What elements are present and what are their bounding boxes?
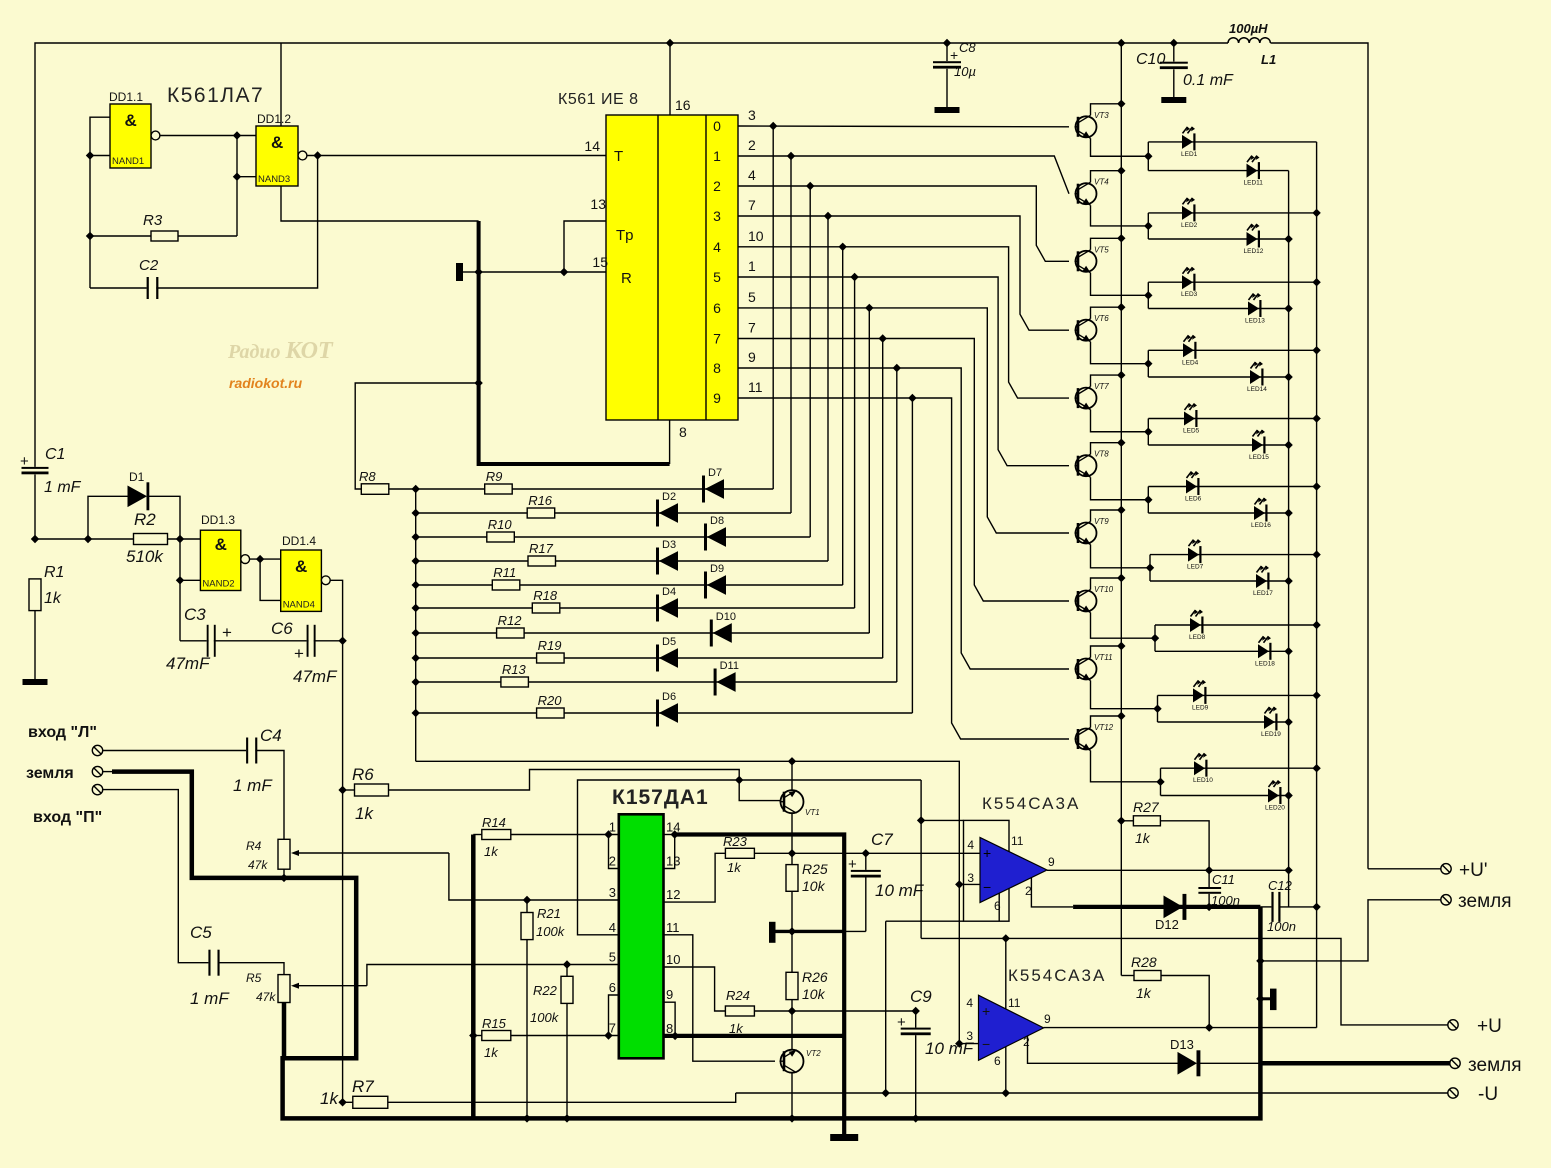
resistor R18 (532, 603, 560, 613)
terminal +U (1448, 1020, 1458, 1030)
wire LED pair stub 7 (1149, 555, 1151, 581)
wire VT10 collector to LED pair (1091, 613, 1156, 639)
svg-text:8: 8 (679, 424, 687, 440)
svg-text:земля: земля (26, 765, 74, 782)
wire LED19 row (1158, 721, 1289, 723)
thick stub bar to frame (776, 930, 845, 933)
svg-text:D7: D7 (708, 467, 722, 479)
terminal земля2 (1450, 1058, 1460, 1068)
svg-text:47mF: 47mF (293, 667, 338, 686)
svg-text:8: 8 (666, 1021, 673, 1036)
svg-text:1k: 1k (484, 1045, 499, 1060)
svg-text:3: 3 (966, 1029, 973, 1043)
junction VT2 emitter ground (788, 1114, 796, 1122)
op-amp U2 К554СА3А lower triangle (979, 995, 1044, 1060)
svg-text:D5: D5 (662, 636, 676, 648)
wire ladder row R12/D10 (416, 632, 870, 634)
svg-text:К554СА3А: К554СА3А (1008, 966, 1106, 985)
nand gate DD1.2 (256, 126, 298, 186)
wire DD1.4 output bus down (330, 580, 342, 1102)
diode D6 (656, 700, 659, 727)
diode D2 (656, 500, 659, 527)
svg-text:3: 3 (748, 107, 756, 123)
svg-text:+: + (982, 1003, 990, 1019)
junctions odd bus (1312, 209, 1320, 911)
junction R3 left (86, 232, 94, 240)
svg-text:D11: D11 (720, 660, 739, 672)
junction R8 row on thick bus (474, 379, 482, 387)
transistor VT5 (1076, 251, 1097, 272)
svg-text:2: 2 (609, 854, 616, 869)
wire D1 to node right (149, 496, 180, 641)
svg-text:1k: 1k (355, 804, 374, 823)
wire VT3 emitter to bus (1091, 104, 1122, 116)
svg-text:6: 6 (713, 300, 721, 316)
svg-text:L1: L1 (1261, 52, 1276, 67)
junction R21 top (523, 896, 531, 904)
svg-text:+: + (222, 623, 232, 642)
potentiometer R4 (278, 839, 290, 869)
svg-text:R22: R22 (533, 983, 558, 998)
junction collector LED stub (1144, 428, 1152, 436)
wire C1 to R2 node (35, 475, 134, 540)
wire C2 row (90, 156, 318, 289)
resistor R20 (537, 708, 565, 718)
svg-text:LED10: LED10 (1193, 777, 1213, 784)
svg-text:C11: C11 (1212, 872, 1235, 887)
junctions on ladder bus (412, 485, 420, 717)
svg-text:9: 9 (1048, 855, 1055, 869)
svg-text:−: − (982, 1036, 990, 1052)
svg-text:1 mF: 1 mF (233, 776, 273, 795)
wire LED10 row (1161, 767, 1317, 769)
thick wire pin14 row and right frame (675, 835, 845, 1135)
wire C7 node to comparator pin4 (866, 852, 980, 854)
counter outer pin numbers (748, 107, 764, 395)
transistor VT9 (1076, 523, 1097, 544)
wire C3 C6 row (180, 640, 343, 642)
svg-text:R1: R1 (44, 564, 64, 581)
wire ladder row R10/D8 (416, 536, 811, 538)
svg-text:C1: C1 (45, 446, 65, 463)
svg-text:R27: R27 (1133, 799, 1160, 815)
wire pin3 stub upper (959, 883, 980, 885)
main ground symbol (830, 1134, 858, 1141)
svg-text:VT4: VT4 (1094, 178, 1109, 187)
wire LED14 row (1148, 376, 1288, 378)
svg-text:1k: 1k (1135, 830, 1151, 846)
wire box bottom to -U drop (885, 921, 887, 1093)
stub bar2 (1260, 997, 1270, 1000)
wire LED pair stub 8 (1154, 625, 1156, 651)
junction pin7 (604, 1031, 612, 1039)
wire pin1-pin2 bracket (609, 835, 619, 869)
svg-text:9: 9 (748, 349, 756, 365)
pin 15 R wire (479, 271, 606, 273)
svg-text:10: 10 (748, 228, 764, 244)
junction Tp-R (560, 268, 568, 276)
svg-text:R21: R21 (537, 906, 561, 921)
thick ground path from земля input (103, 771, 113, 773)
wire pin6 lower riser (1005, 1047, 1007, 1093)
junction C2 to DD1.2 output (313, 151, 321, 159)
wire LED8 row (1155, 624, 1317, 626)
junction pin8 (671, 1032, 679, 1040)
junction VT11 emitter (1117, 642, 1125, 650)
wire pin3 stub lower (959, 1043, 978, 1045)
capacitor C1 (22, 467, 49, 469)
wire box bottom extension (886, 920, 964, 922)
svg-text:100n: 100n (1211, 893, 1240, 908)
wire C7 bottom (865, 878, 867, 932)
led LED2 (1182, 206, 1193, 220)
comparator box upper (964, 820, 1010, 921)
svg-text:1 mF: 1 mF (44, 479, 82, 496)
svg-text:земля: земля (1458, 891, 1512, 912)
junction DD1.1 input2 (86, 151, 94, 159)
output bubble DD1.1 (151, 131, 160, 140)
wire R24 to node (754, 1010, 915, 1012)
transistor VT6 (1076, 320, 1097, 341)
junction VT5 emitter (1117, 234, 1125, 242)
svg-text:8: 8 (713, 360, 721, 376)
svg-text:+: + (950, 47, 958, 63)
wire pin2 lower to D13 (1028, 1036, 1179, 1064)
svg-text:3: 3 (967, 871, 974, 885)
svg-text:10 mF: 10 mF (875, 881, 925, 900)
thick bus from DD1.2 to counter pin 8 (479, 221, 670, 464)
wire counter pin3 row to VT6 base (738, 216, 1069, 330)
resistor R2 (134, 534, 168, 545)
nand gate DD1.1 (110, 104, 151, 168)
svg-text:LED4: LED4 (1182, 359, 1199, 366)
svg-text:2: 2 (1023, 1035, 1030, 1049)
capacitor C10 wire stub (1173, 43, 1175, 62)
terminal вход Л (92, 745, 102, 755)
wire LED16 row (1148, 512, 1288, 514)
junction collector LED stub (1144, 222, 1152, 230)
junction DD1.3 input2 node (176, 576, 184, 584)
wire counter pin2 row to VT5 base (738, 186, 1069, 261)
wire ladder row R19/D5 (416, 657, 883, 659)
svg-text:вход "П": вход "П" (33, 809, 102, 826)
junctions on top rail (666, 39, 1178, 47)
svg-text:C6: C6 (271, 619, 293, 638)
led LED14 (1250, 370, 1261, 384)
wire ladder row R9/D7 (416, 488, 774, 490)
svg-text:R11: R11 (493, 565, 516, 580)
svg-text:DD1.1: DD1.1 (109, 90, 143, 104)
junction pin3 upper (955, 880, 963, 888)
diode D3 (656, 548, 659, 575)
junction DD1.3 out (256, 555, 264, 563)
wire R5 wiper (366, 985, 368, 987)
svg-text:LED12: LED12 (1244, 248, 1264, 255)
pin labels left (609, 820, 616, 1036)
svg-text:R9: R9 (486, 469, 503, 484)
wire R4 wiper (295, 852, 449, 854)
wire DD1.3 input2 stub (180, 579, 200, 581)
svg-text:VT1: VT1 (805, 808, 820, 817)
pin 13 Tp wire (564, 221, 606, 272)
wire LED7 row (1150, 554, 1317, 556)
svg-text:C4: C4 (260, 726, 282, 745)
svg-text:R8: R8 (359, 469, 376, 484)
wire R5 bottom thick (282, 1003, 287, 1059)
wire pin13-pin14 bracket (664, 835, 675, 869)
wire LED11 row (1148, 170, 1288, 172)
svg-text:0: 0 (713, 118, 721, 134)
junction DD1.2 input2 (233, 173, 241, 181)
led LED11 (1247, 164, 1258, 178)
wire ladder row R18/D4 (416, 607, 855, 609)
led LED8 (1190, 618, 1201, 632)
svg-text:1k: 1k (44, 590, 62, 607)
junction R6 left on DD1.4 bus (338, 786, 346, 794)
wire counter pin7 row to VT10 base (738, 339, 1069, 602)
wire C10 to ground (1173, 69, 1175, 97)
svg-text:1 mF: 1 mF (190, 989, 230, 1008)
resistor R28 with wires (1121, 975, 1134, 977)
capacitor C6 (307, 625, 309, 657)
junction R25-R26 on bar row (788, 927, 796, 935)
junction output R28 riser (1205, 1023, 1213, 1031)
junction VT4 emitter (1117, 167, 1125, 175)
wire R22 to ground bus (566, 1003, 568, 1118)
wire DD1.1 input 2 stub (90, 155, 110, 157)
svg-text:C3: C3 (184, 605, 206, 624)
junction R7 left on DD1.4 bus (338, 1098, 346, 1106)
wire -U row (736, 1092, 1448, 1094)
resistor R12 (497, 628, 524, 638)
led LED7 (1188, 548, 1199, 562)
svg-text:1: 1 (748, 258, 756, 274)
junction C9 top (912, 1007, 920, 1015)
junction pin14 (671, 830, 679, 838)
wire C4 to R4 (255, 751, 284, 840)
output bubble DD1.3 (241, 555, 250, 564)
svg-text:100k: 100k (536, 924, 566, 939)
svg-text:LED11: LED11 (1244, 180, 1264, 187)
svg-text:4: 4 (967, 838, 974, 852)
wire pin9-pin8 bracket (664, 1002, 676, 1036)
capacitor C7 (865, 853, 867, 870)
wire VT11 emitter to bus (1091, 646, 1122, 658)
wire LED pair stub 5 (1147, 419, 1149, 446)
wire comparator net row to box (921, 819, 963, 821)
svg-text:LED13: LED13 (1245, 318, 1265, 325)
led LED12 (1247, 232, 1258, 246)
junction C9 ground (912, 1114, 920, 1122)
pin labels right (666, 820, 680, 1036)
diode D5 (656, 645, 659, 672)
wire pin12 to R23 (664, 853, 726, 902)
svg-text:R18: R18 (533, 588, 558, 603)
junction -U drops (882, 1089, 1011, 1097)
svg-text:NAND1: NAND1 (112, 156, 144, 167)
svg-text:C9: C9 (910, 987, 932, 1006)
resistor R19 (537, 653, 565, 663)
svg-text:&: & (215, 535, 227, 554)
svg-text:11: 11 (1011, 834, 1024, 848)
junction output R27 riser (1205, 866, 1213, 874)
svg-text:−: − (983, 879, 991, 895)
svg-text:LED20: LED20 (1265, 805, 1285, 812)
svg-text:47k: 47k (248, 858, 268, 872)
wire R1 to ground (34, 611, 36, 679)
wire LED17 row (1150, 580, 1289, 582)
svg-text:LED8: LED8 (1189, 634, 1206, 641)
junction C6 to bus (338, 637, 346, 645)
wire LED pair stub 3 (1147, 282, 1149, 308)
svg-text:D13: D13 (1170, 1037, 1194, 1052)
junction collector LED stub (1144, 359, 1152, 367)
junction pin3 lower (955, 1039, 963, 1047)
svg-text:R23: R23 (723, 834, 748, 849)
junction R4 bottom on ground path (280, 874, 288, 882)
wire VT9 emitter to bus (1091, 510, 1122, 522)
svg-text:R17: R17 (529, 541, 554, 556)
svg-text:15: 15 (592, 254, 608, 270)
wire LED cathode bus even (1288, 171, 1290, 907)
capacitor C5 (208, 950, 210, 976)
svg-text:R24: R24 (726, 988, 750, 1003)
junction pin1 (604, 830, 612, 838)
wire ladder summing bus (415, 489, 417, 761)
svg-text:R3: R3 (143, 212, 163, 229)
svg-text:C7: C7 (871, 830, 893, 849)
wire DD1.2 input2 stub (237, 176, 256, 178)
svg-text:T: T (614, 148, 623, 165)
capacitor C4 (246, 738, 248, 764)
resistor R11 (492, 580, 520, 590)
wire LED9 row (1158, 694, 1317, 696)
wire ladder row R20/D6 (416, 712, 913, 714)
svg-text:12: 12 (666, 887, 680, 902)
junction VT3 emitter (1117, 100, 1125, 108)
ground under R1 (23, 679, 48, 685)
svg-text:100n: 100n (1267, 919, 1296, 934)
led LED6 (1186, 480, 1197, 494)
wire LED2 row (1148, 212, 1316, 214)
junction земля1 on thick vertical (1256, 957, 1264, 965)
svg-text:9: 9 (713, 390, 721, 406)
svg-text:R14: R14 (482, 815, 506, 830)
svg-text:+: + (983, 845, 991, 861)
svg-text:3: 3 (609, 885, 616, 900)
svg-text:R16: R16 (528, 493, 553, 508)
svg-text:D10: D10 (716, 611, 736, 623)
diode D9 (704, 572, 707, 599)
wire вход П to C5 (103, 790, 210, 963)
svg-text:R26: R26 (802, 969, 828, 985)
junction riser-box (917, 816, 925, 824)
junction row780 VT1 drop (735, 776, 743, 784)
svg-text:DD1.4: DD1.4 (282, 534, 316, 548)
svg-text:LED9: LED9 (1192, 704, 1209, 711)
ground under C8 (935, 107, 960, 113)
wire VT1 collector to row A (791, 761, 793, 790)
wire R21 to ground bus (526, 940, 528, 1119)
ground under C10 (1161, 97, 1186, 103)
svg-text:+: + (848, 856, 857, 873)
wire VT5 collector to LED pair (1091, 273, 1149, 296)
wire ladder row R16/D2 (416, 512, 791, 514)
wire DD1.2 power from top rail (280, 43, 282, 126)
svg-text:VT12: VT12 (1094, 723, 1114, 732)
svg-text:VT7: VT7 (1094, 382, 1109, 391)
wire VT9 collector to LED pair (1091, 545, 1151, 568)
svg-text:LED19: LED19 (1261, 731, 1281, 738)
svg-text:6: 6 (994, 1054, 1001, 1068)
wire VT12 emitter to bus (1091, 716, 1122, 728)
junction C11 bottom on D12 row (1205, 903, 1213, 911)
capacitor C8 (933, 61, 961, 63)
output bubble DD1.4 (321, 576, 330, 585)
wire LED3 row (1148, 281, 1316, 283)
junctions at counter output pins (769, 122, 917, 402)
svg-text:510k: 510k (126, 547, 164, 566)
svg-text:LED16: LED16 (1251, 522, 1271, 529)
wire LED6 row (1148, 486, 1316, 488)
wire вход Л to C4 (103, 750, 248, 752)
junction collector LED stub (1144, 291, 1152, 299)
led LED5 (1184, 412, 1195, 426)
terminal +U' (1441, 864, 1451, 874)
wire R23 to node row (754, 852, 865, 854)
svg-text:D3: D3 (662, 539, 676, 551)
svg-text:2: 2 (713, 178, 721, 194)
wire R5 wiper to pin5 row (367, 965, 619, 986)
wire pin10 to R24 (664, 967, 726, 1011)
junction VT9 emitter (1117, 506, 1125, 514)
wire R8 to bus (389, 488, 416, 490)
wire DD1.4 input2 (260, 559, 281, 600)
svg-text:C10: C10 (1136, 51, 1165, 68)
svg-text:D8: D8 (710, 515, 724, 527)
svg-text:LED1: LED1 (1181, 151, 1198, 158)
resistor R16 (527, 508, 555, 518)
wire LED pair stub 1 (1147, 142, 1149, 171)
svg-text:VT2: VT2 (806, 1049, 821, 1058)
wire counter pin4 row to VT7 base (738, 247, 1069, 398)
wire VT10 emitter to bus (1091, 578, 1122, 590)
svg-text:LED6: LED6 (1185, 496, 1202, 503)
junction D1 left (84, 535, 92, 543)
wire bar row to C7 bottom (844, 930, 866, 932)
wire C8 to ground (946, 69, 948, 107)
output bubble DD1.2 (298, 151, 307, 160)
resistor R3 row wire (90, 235, 237, 237)
svg-text:+: + (897, 1014, 906, 1031)
svg-text:11: 11 (1008, 996, 1021, 1010)
wire ladder columns from counter outputs (773, 126, 912, 713)
svg-text:D12: D12 (1155, 917, 1179, 932)
wire top rail right of L1 down to +U' terminal (1271, 43, 1369, 869)
wire VT7 collector to LED pair (1091, 410, 1149, 432)
svg-text:5: 5 (609, 950, 616, 965)
led LED3 (1182, 275, 1193, 289)
wire VT8 emitter to bus (1091, 443, 1122, 455)
junction VT12 emitter (1117, 712, 1125, 720)
svg-text:R7: R7 (352, 1077, 374, 1096)
transistor VT12 (1076, 729, 1097, 750)
wire D1 branch (88, 496, 128, 539)
svg-text:C5: C5 (190, 923, 212, 942)
diode D8 (704, 524, 707, 551)
wire output row upper (1047, 869, 1289, 871)
wire LED pair stub 2 (1147, 213, 1149, 239)
